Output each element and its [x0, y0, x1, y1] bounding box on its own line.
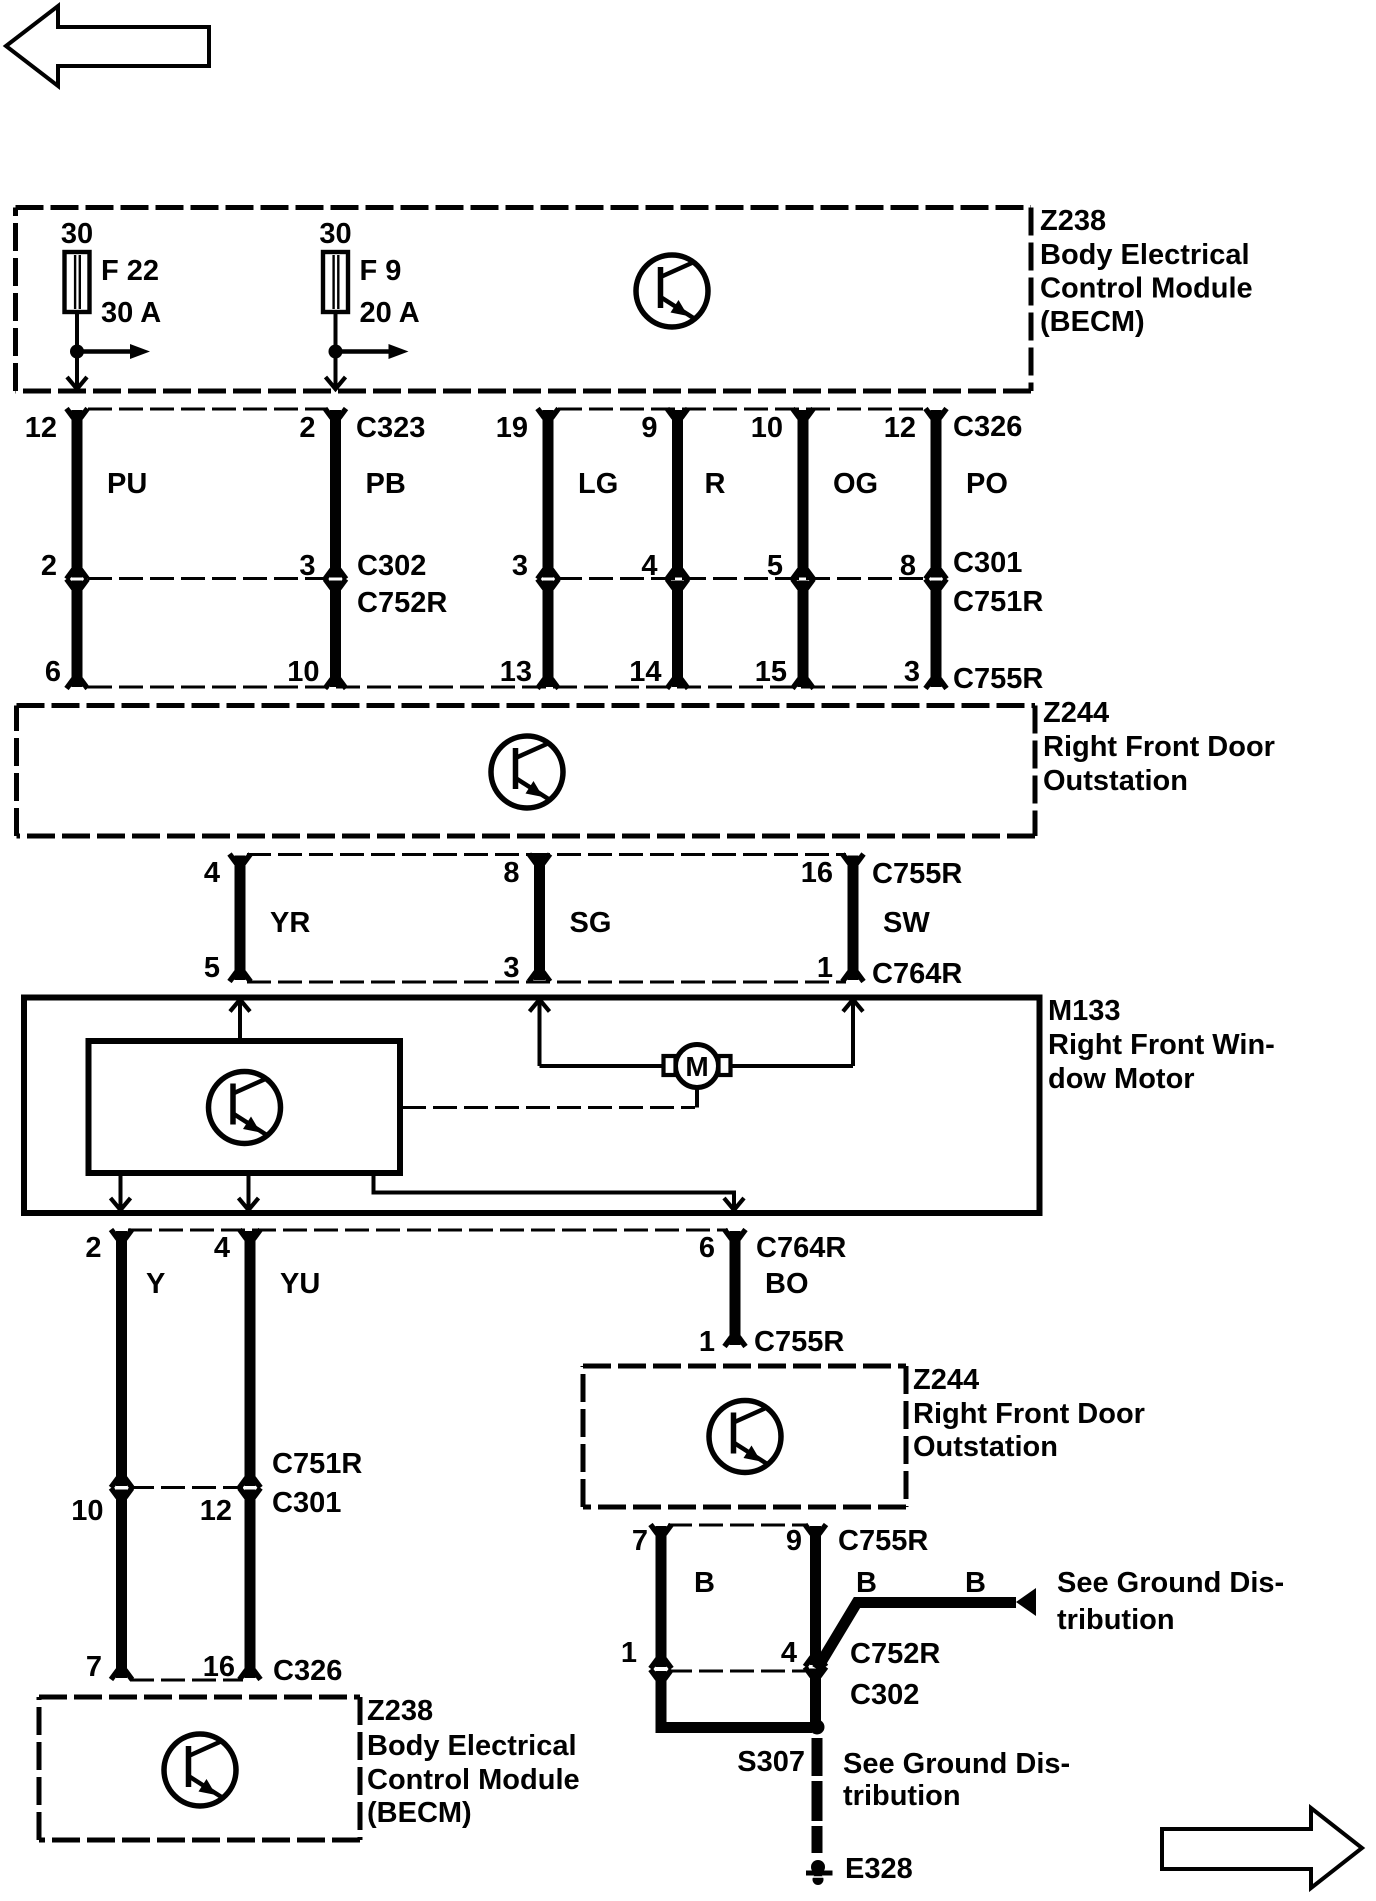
connector line C752R/C302 [668, 1670, 808, 1673]
ground wire (dashed) from S307 to E328 [812, 1738, 823, 1853]
svg-text:9: 9 [786, 1525, 802, 1557]
window control unit sub-box [89, 1041, 401, 1173]
transistor symbol U4 (outstation lower) [709, 1401, 781, 1473]
svg-text:SG: SG [570, 907, 612, 939]
connector line C764R (row) [247, 981, 846, 984]
module box Z238 BECM (bottom) [39, 1697, 360, 1840]
svg-text:Body Electrical: Body Electrical [367, 1730, 577, 1762]
connector line C301/C751R (right) [558, 577, 926, 580]
svg-text:Right Front Door: Right Front Door [1043, 731, 1275, 763]
branch arrow right from F9 node [336, 349, 391, 354]
svg-text:6: 6 [45, 656, 61, 688]
connector line C326 (right) [558, 408, 926, 411]
svg-text:3: 3 [503, 952, 519, 984]
wire BO (pin 6 to pin 1) [730, 1231, 741, 1345]
wire YR (pin 4 to pin 5) [235, 856, 246, 981]
lead SW down [851, 1000, 855, 1067]
ground point E328 [811, 1860, 825, 1874]
svg-text:C751R: C751R [272, 1448, 362, 1480]
svg-text:Outstation: Outstation [913, 1431, 1058, 1463]
wire OG lower segment (splice to pin 15) [798, 581, 809, 688]
wire B left elbow to S307 [661, 1671, 812, 1728]
connector line C755R (ground row) [668, 1524, 808, 1527]
transistor symbol U3 (motor electronics) [209, 1072, 281, 1144]
svg-text:F 22: F 22 [101, 255, 159, 287]
svg-text:1: 1 [817, 952, 833, 984]
transistor symbol U2 (outstation) [491, 736, 563, 808]
svg-text:C301: C301 [953, 547, 1022, 579]
module box Z238 BECM (top) [16, 208, 1032, 392]
svg-text:C326: C326 [273, 1655, 342, 1687]
motor brush right [719, 1056, 731, 1075]
lead YR to control unit [238, 1000, 242, 1042]
wire Y upper segment (pin 2 to splice) [116, 1231, 127, 1486]
svg-text:15: 15 [755, 656, 787, 688]
wire LG upper segment (pin 19 to splice) [543, 410, 554, 578]
dashed control lead to motor [402, 1106, 695, 1109]
svg-text:M: M [685, 1051, 708, 1082]
svg-text:C755R: C755R [754, 1326, 844, 1358]
wire B left upper segment (pin 7 to splice) [656, 1526, 667, 1667]
svg-text:C755R: C755R [872, 858, 962, 890]
wire YU lower segment (splice to pin 16) [245, 1490, 256, 1679]
off-page arrow (top left, pointing left) [6, 6, 209, 86]
svg-text:C752R: C752R [850, 1638, 940, 1670]
lead SG down [538, 1000, 542, 1067]
svg-text:14: 14 [629, 656, 661, 688]
svg-text:1: 1 [621, 1637, 637, 1669]
svg-text:B: B [694, 1567, 715, 1599]
entry arrow from YR [230, 1000, 250, 1012]
svg-text:(BECM): (BECM) [367, 1797, 472, 1829]
svg-text:YR: YR [270, 907, 310, 939]
svg-text:4: 4 [204, 857, 220, 889]
wire down from F9 node to connector C323 pin 2 [334, 352, 338, 387]
svg-text:30: 30 [61, 218, 93, 250]
svg-text:Z244: Z244 [1043, 697, 1109, 729]
svg-text:3: 3 [904, 656, 920, 688]
svg-text:Outstation: Outstation [1043, 765, 1188, 797]
svg-text:Z238: Z238 [367, 1695, 433, 1727]
svg-text:30 A: 30 A [101, 297, 161, 329]
entry arrow from SG [530, 1000, 550, 1012]
connector line C764R (below motor) [128, 1229, 728, 1232]
svg-text:16: 16 [801, 857, 833, 889]
off-page arrow (bottom right, pointing right) [1162, 1808, 1362, 1888]
svg-text:OG: OG [833, 468, 878, 500]
wire PO upper segment (pin 12 to splice) [931, 410, 942, 578]
svg-text:10: 10 [751, 412, 783, 444]
wire YU upper segment (pin 4 to splice) [245, 1231, 256, 1486]
svg-text:10: 10 [71, 1495, 103, 1527]
svg-text:See Ground Dis-: See Ground Dis- [1057, 1567, 1284, 1599]
svg-text:Right Front Win-: Right Front Win- [1048, 1029, 1275, 1061]
svg-text:1: 1 [699, 1326, 715, 1358]
wire PB lower segment (splice to pin 10) [330, 581, 341, 688]
wire R lower segment (splice to pin 14) [672, 581, 683, 688]
svg-text:C752R: C752R [357, 587, 447, 619]
svg-text:Z244: Z244 [913, 1364, 979, 1396]
svg-text:2: 2 [85, 1232, 101, 1264]
svg-text:C323: C323 [356, 412, 425, 444]
branch arrow right from F22 node [77, 349, 132, 354]
svg-text:5: 5 [204, 952, 220, 984]
wire PB upper segment (pin 2 to splice) [330, 410, 341, 578]
module box Z244 Right Front Door Outstation (upper) [17, 706, 1036, 837]
entry arrow from SW [843, 1000, 863, 1012]
lead motor to SW [731, 1064, 853, 1068]
connector line C323 (left) [88, 408, 327, 411]
motor M armature [676, 1045, 719, 1088]
module box Z244 Right Front Door Outstation (lower) [583, 1366, 906, 1507]
svg-text:Body Electrical: Body Electrical [1040, 239, 1250, 271]
svg-text:C755R: C755R [838, 1525, 928, 1557]
wire SG (pin 8 to pin 3) [534, 856, 545, 981]
connector line C755R (row) [247, 853, 846, 856]
module box M133 Right Front Window Motor [24, 998, 1040, 1214]
junction dot below F9 [329, 345, 343, 359]
svg-text:C301: C301 [272, 1487, 341, 1519]
svg-text:S307: S307 [737, 1746, 805, 1778]
wire PU upper segment (pin 12 to splice) [72, 410, 83, 578]
svg-text:LG: LG [578, 468, 618, 500]
svg-text:12: 12 [200, 1495, 232, 1527]
connector line C755R (bottom row) [88, 686, 926, 689]
wire B right upper segment (pin 9 to splice) [810, 1526, 821, 1665]
svg-text:4: 4 [214, 1232, 230, 1264]
wire OG upper segment (pin 10 to splice) [798, 410, 809, 578]
svg-text:2: 2 [299, 412, 315, 444]
wire B right lower segment to S307 [810, 1669, 821, 1725]
svg-text:tribution: tribution [843, 1780, 961, 1812]
connector line C751R/C301 [130, 1486, 243, 1489]
svg-text:9: 9 [641, 412, 657, 444]
lead SG to motor [540, 1064, 664, 1068]
svg-text:Right Front Door: Right Front Door [913, 1398, 1145, 1430]
svg-text:C755R: C755R [953, 663, 1043, 695]
svg-text:Control Module: Control Module [1040, 273, 1253, 305]
transistor symbol U5 (BECM bottom) [164, 1734, 236, 1806]
lead to pin 4 (YU) [247, 1173, 251, 1208]
svg-text:20 A: 20 A [360, 297, 420, 329]
wire LG lower segment (splice to pin 13) [543, 581, 554, 688]
motor field lead down [695, 1087, 699, 1108]
wire SW (pin 16 to pin 1) [848, 856, 859, 981]
wire Y lower segment (splice to pin 7) [116, 1490, 127, 1679]
off-page triangle (ground distribution) [1016, 1588, 1036, 1616]
svg-text:10: 10 [287, 656, 319, 688]
svg-text:SW: SW [883, 907, 930, 939]
wire R upper segment (pin 9 to splice) [672, 410, 683, 578]
svg-text:C764R: C764R [872, 958, 962, 990]
junction dot below F22 [70, 345, 84, 359]
svg-text:7: 7 [632, 1525, 648, 1557]
svg-text:PU: PU [107, 468, 147, 500]
svg-text:C751R: C751R [953, 586, 1043, 618]
svg-text:B: B [965, 1567, 986, 1599]
svg-text:C326: C326 [953, 411, 1022, 443]
svg-text:PO: PO [966, 468, 1008, 500]
svg-text:E328: E328 [845, 1853, 913, 1885]
svg-text:BO: BO [765, 1268, 809, 1300]
svg-text:dow Motor: dow Motor [1048, 1063, 1195, 1095]
transistor symbol U1 (BECM) [636, 255, 708, 327]
svg-text:R: R [705, 468, 726, 500]
svg-text:2: 2 [41, 550, 57, 582]
svg-text:12: 12 [25, 412, 57, 444]
svg-text:12: 12 [884, 412, 916, 444]
svg-text:(BECM): (BECM) [1040, 306, 1145, 338]
svg-text:6: 6 [699, 1232, 715, 1264]
svg-text:Y: Y [146, 1268, 165, 1300]
svg-text:30: 30 [319, 218, 351, 250]
svg-text:tribution: tribution [1057, 1604, 1175, 1636]
lead to pin 6 (BO) [374, 1173, 735, 1208]
svg-text:YU: YU [280, 1268, 320, 1300]
svg-text:PB: PB [366, 468, 406, 500]
connector line C326 (bottom) [130, 1679, 243, 1682]
svg-text:F 9: F 9 [360, 255, 402, 287]
svg-text:13: 13 [500, 656, 532, 688]
wire down from F22 node to connector C323 pin 12 [75, 352, 79, 387]
svg-text:4: 4 [781, 1637, 797, 1669]
svg-text:Control Module: Control Module [367, 1764, 580, 1796]
svg-text:8: 8 [503, 857, 519, 889]
connector line C302/C752R (left) [88, 577, 327, 580]
svg-text:3: 3 [512, 550, 528, 582]
lead to pin 2 (Y) [119, 1173, 123, 1208]
svg-text:C302: C302 [357, 550, 426, 582]
svg-text:B: B [856, 1567, 877, 1599]
svg-text:16: 16 [203, 1651, 235, 1683]
svg-text:C302: C302 [850, 1679, 919, 1711]
svg-text:Z238: Z238 [1040, 205, 1106, 237]
svg-text:C764R: C764R [756, 1232, 846, 1264]
branch B to See Ground Distribution [817, 1603, 1016, 1670]
svg-text:See Ground Dis-: See Ground Dis- [843, 1748, 1070, 1780]
svg-text:7: 7 [86, 1651, 102, 1683]
svg-text:19: 19 [496, 412, 528, 444]
svg-text:M133: M133 [1048, 995, 1121, 1027]
splice S307 [810, 1720, 825, 1735]
wire PU lower segment (splice to pin 6) [72, 581, 83, 688]
motor brush left [664, 1056, 676, 1075]
wire PO lower segment (splice to pin 3) [931, 581, 942, 688]
